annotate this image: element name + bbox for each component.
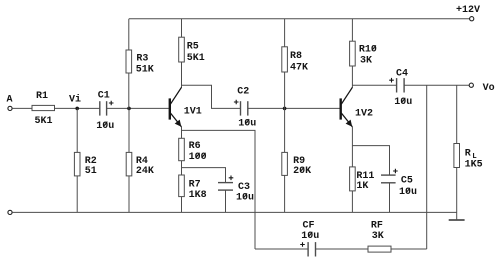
svg-text:R7: R7 [189,180,201,191]
svg-text:5K1: 5K1 [35,116,53,127]
svg-text:R1: R1 [36,91,48,102]
resistor R9 [282,152,311,177]
wire R8 top lead [284,19,286,47]
svg-text:CF: CF [303,221,315,232]
capacitor CF [300,221,319,257]
resistor R4 [126,152,154,177]
svg-text:Vi: Vi [69,94,81,106]
wire 1V2 emitter down to R11 [351,127,353,167]
svg-text:5K1: 5K1 [187,53,205,64]
svg-text:R: R [465,149,471,160]
wire feedback from output node down [426,85,428,249]
wire R10 top lead [351,19,353,42]
wire R9 to ground rail [284,175,286,212]
svg-text:+12V: +12V [456,5,480,16]
svg-text:100: 100 [189,152,207,163]
svg-text:C2: C2 [237,87,249,98]
wire R4 to ground rail [128,176,130,213]
resistor R1 [32,91,55,127]
svg-text:20K: 20K [293,166,311,177]
svg-text:10u: 10u [96,121,114,132]
wire R5 top lead [181,19,183,38]
slashed zero marks on value labels [103,45,410,237]
transistor 1V2 [341,87,373,127]
svg-text:1K8: 1K8 [189,190,207,201]
terminal +12V [456,5,480,21]
wire R1 to C1 through node Vi [55,107,100,109]
wire R10 to 1V2 collector [351,66,353,88]
svg-text:10u: 10u [399,187,417,198]
svg-text:51: 51 [85,166,97,177]
wire ground rail [12,211,457,213]
svg-text:Vo: Vo [483,83,495,94]
wire branch to C3 [182,168,226,183]
svg-text:1K: 1K [356,181,368,192]
wire R3 top lead [128,19,130,50]
svg-text:51K: 51K [136,64,154,75]
resistor R8 [282,47,308,74]
node Vi [69,94,81,111]
wire 1V2 collector to C4 [352,84,396,86]
wire R5 to 1V1 collector [181,62,183,88]
resistor R2 [74,152,96,177]
svg-text:C5: C5 [401,176,413,187]
wire 1V1 emitter down to R6 [181,127,183,138]
svg-text:1V1: 1V1 [184,107,202,118]
svg-text:1V2: 1V2 [355,109,373,120]
svg-text:R6: R6 [189,141,201,152]
svg-text:RF: RF [371,221,383,232]
svg-text:R10: R10 [359,45,377,56]
resistor R10 [350,41,377,66]
wire R9 top lead [284,108,286,152]
svg-text:R3: R3 [136,53,148,64]
resistor RF [368,221,391,253]
resistor R5 [179,37,205,64]
svg-text:R5: R5 [187,42,199,53]
wire 1V1 collector branch to C2 [182,85,241,108]
svg-text:10u: 10u [394,97,412,108]
svg-text:R8: R8 [290,51,302,62]
svg-text:47K: 47K [290,63,308,74]
wire RF to feedback riser [391,248,427,250]
wire R8 bottom lead [284,72,286,108]
transistor 1V1 [170,87,202,127]
svg-text:C3: C3 [238,182,250,193]
wire feedback branch from 1V1 emitter [182,130,256,249]
resistor R7 [179,175,207,201]
wire C5 to ground rail [389,183,391,213]
wire C4 to terminal Vo [404,84,469,86]
svg-text:C1: C1 [98,91,110,102]
node base of 1V2 [283,107,287,111]
svg-text:3K: 3K [360,56,372,67]
capacitor C3 [218,176,254,204]
wire C2 to 1V2 base through node [248,107,340,109]
wire feedback bottom to CF [255,248,308,250]
ground [449,219,465,221]
wire CF to RF [316,248,369,250]
capacitor C1 [96,91,114,132]
wire C3 to ground rail [225,190,227,212]
wire branch to C5 [352,146,389,176]
svg-text:10u: 10u [236,193,254,204]
wire C1 to 1V1 base through base node [107,107,169,109]
terminal Vo [469,83,494,94]
svg-text:24K: 24K [136,166,154,177]
node base of 1V1 [127,107,131,111]
terminal bottom left [8,210,12,214]
svg-text:3K: 3K [372,231,384,242]
resistor RL [454,144,483,171]
wire R4 top lead [128,108,130,152]
svg-text:C4: C4 [396,69,408,80]
wire RL top lead [456,85,458,143]
capacitor C2 [234,87,256,130]
terminal A [7,95,13,111]
wire R3 bottom lead [128,73,130,108]
wire +12V top rail [129,18,470,20]
svg-text:10u: 10u [238,118,256,129]
wire R11 to ground rail [351,191,353,213]
svg-text:10u: 10u [301,231,319,242]
resistor R3 [126,50,154,75]
resistor R6 [179,138,207,163]
wire R6 to R7 [181,161,183,175]
svg-text:1K5: 1K5 [465,160,483,171]
wire R7 to ground rail [181,197,183,213]
wire R2 to ground rail [76,176,78,213]
wire A to R1 [12,107,32,109]
capacitor C4 [389,69,412,109]
wire RL bottom lead to ground [456,168,458,221]
resistor R11 [350,167,375,192]
wire Vi down to R2 [76,108,78,152]
capacitor C5 [381,169,417,198]
svg-text:A: A [7,95,13,106]
